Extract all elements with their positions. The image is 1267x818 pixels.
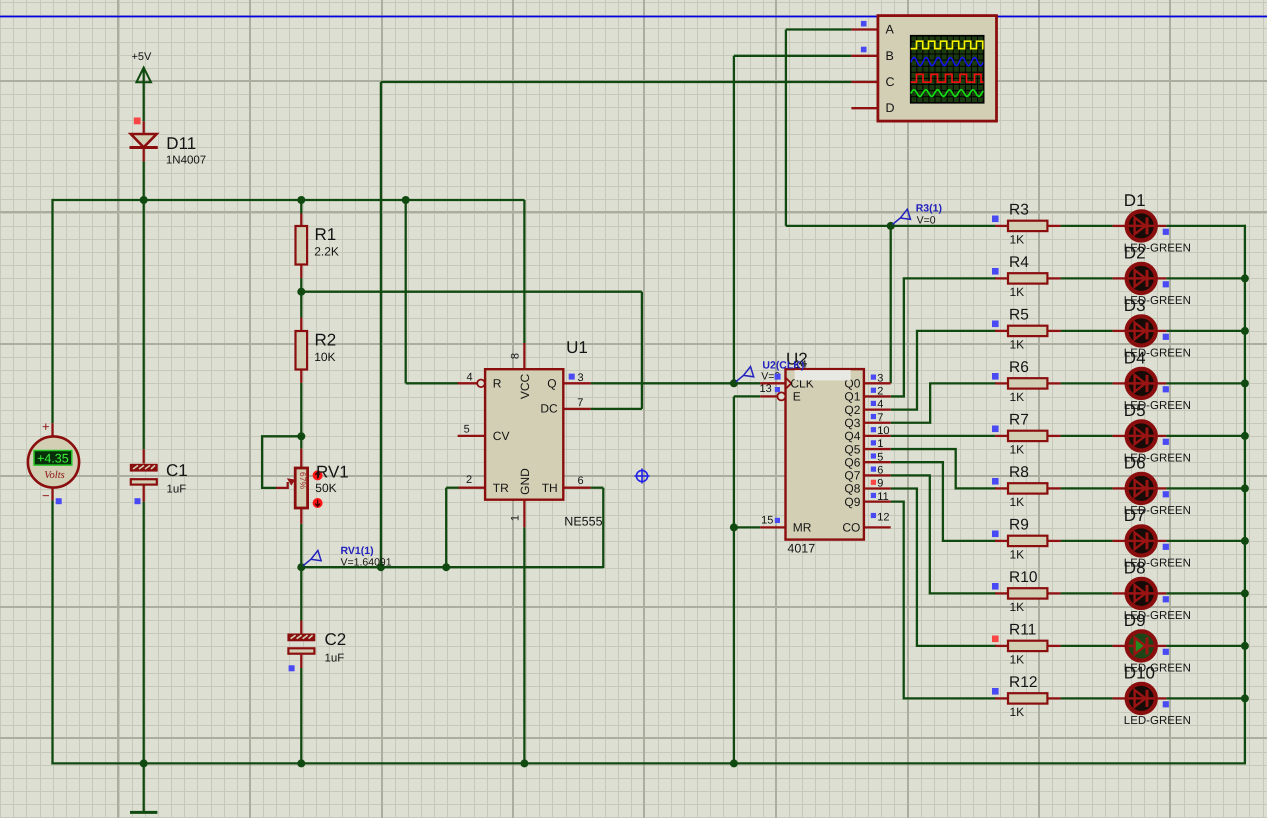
- svg-text:TR: TR: [493, 481, 509, 495]
- junction D9 on right bus: [1241, 642, 1249, 650]
- junction D11/C1 on VCC bus: [140, 196, 148, 204]
- svg-text:D8: D8: [1124, 558, 1146, 577]
- pin R11 left: [995, 645, 1008, 647]
- svg-text:10: 10: [877, 425, 889, 437]
- pin D10 cathode: [1157, 697, 1167, 699]
- junction RV1/C2 node: [297, 563, 305, 571]
- wire RV1 wiper loop: [262, 436, 301, 488]
- resistor R3: [1008, 221, 1047, 231]
- pin C1 top: [143, 449, 145, 463]
- LED D8: [1127, 579, 1156, 608]
- wire DC vertical: [641, 292, 643, 409]
- svg-text:GND: GND: [518, 468, 532, 495]
- wire R3 to D1: [1061, 225, 1113, 227]
- svg-text:1K: 1K: [1010, 547, 1025, 561]
- resistor R5: [1008, 326, 1047, 336]
- svg-text:11: 11: [877, 491, 888, 503]
- pin R9 right: [1047, 540, 1060, 542]
- resistor R2: [296, 331, 308, 370]
- pin U2 Q9: [864, 500, 891, 502]
- svg-text:TH: TH: [542, 481, 558, 495]
- pin U2 Q5: [864, 448, 891, 450]
- pin U2.13 E: [760, 395, 777, 397]
- svg-text:D10: D10: [1124, 663, 1155, 682]
- probe R3(1) arrow: [893, 218, 901, 224]
- pin R3 right: [1047, 225, 1060, 227]
- wire Q0 node to R3: [891, 225, 995, 227]
- origin marker: [636, 470, 647, 481]
- wire scope C vertical: [380, 82, 382, 567]
- svg-text:+: +: [42, 419, 50, 434]
- pin C2 bottom: [300, 655, 302, 668]
- svg-text:Q6: Q6: [844, 455, 860, 469]
- pin D2 cathode: [1157, 277, 1167, 279]
- counter U2 4017 body: [786, 369, 864, 539]
- pin R5 left: [995, 330, 1008, 332]
- svg-text:1K: 1K: [1010, 337, 1025, 351]
- svg-text:C: C: [886, 75, 895, 89]
- wire DC pin horizontal: [591, 408, 642, 410]
- svg-text:7: 7: [877, 412, 883, 424]
- pin D8 anode: [1113, 592, 1126, 594]
- junction D10 on right bus: [1241, 694, 1249, 702]
- svg-text:67%: 67%: [298, 472, 308, 489]
- svg-text:CV: CV: [493, 429, 510, 443]
- svg-text:Q9: Q9: [844, 495, 860, 509]
- wire VCC to U1 pin8: [523, 200, 525, 343]
- wire to R pin: [406, 382, 459, 384]
- sheet border line: [0, 16, 1267, 18]
- LED D4: [1127, 369, 1156, 398]
- pin U1.3 Q: [563, 382, 590, 384]
- op-amp U1 NE555 body: [485, 369, 563, 500]
- pin U1.7 DC: [563, 408, 590, 410]
- svg-text:Q7: Q7: [844, 469, 860, 483]
- pin RV1 wiper: [276, 482, 288, 488]
- resistor R1: [296, 226, 308, 265]
- wire D11 to bus: [143, 162, 145, 201]
- svg-text:1K: 1K: [1010, 232, 1025, 246]
- svg-text:R8: R8: [1009, 464, 1029, 481]
- wire C1 to ground bus: [143, 502, 145, 764]
- svg-text:1K: 1K: [1010, 705, 1025, 719]
- svg-text:7: 7: [577, 397, 583, 409]
- svg-text:1: 1: [510, 515, 522, 521]
- svg-text:Q: Q: [547, 377, 556, 391]
- junction scope C on TR net: [377, 563, 385, 571]
- svg-text:Q5: Q5: [844, 442, 860, 456]
- wire D2 to right bus: [1166, 277, 1246, 279]
- pin R2 bottom: [300, 370, 302, 383]
- wire voltmeter minus leg: [51, 500, 53, 764]
- LED D3: [1127, 316, 1156, 345]
- pin D6 cathode: [1157, 487, 1167, 489]
- wire R11 to D9: [1061, 645, 1113, 647]
- wire Q1 to R4: [891, 278, 997, 396]
- svg-text:Q8: Q8: [844, 482, 860, 496]
- scope trace D green: [911, 90, 984, 97]
- junction CLK node: [730, 379, 738, 387]
- svg-text:R: R: [493, 377, 502, 391]
- resistor R4: [1008, 273, 1047, 283]
- svg-text:D4: D4: [1124, 348, 1146, 367]
- junction D3 on right bus: [1241, 327, 1249, 335]
- pin U2 Q7: [864, 474, 891, 476]
- wire ground stem: [143, 763, 145, 812]
- pin D2 anode: [1113, 277, 1126, 279]
- svg-text:C2: C2: [325, 630, 347, 649]
- voltmeter: [28, 436, 79, 487]
- wire to MR pin: [734, 526, 760, 528]
- pin D7 cathode: [1157, 540, 1167, 542]
- svg-text:10K: 10K: [314, 350, 335, 364]
- svg-text:13: 13: [760, 383, 772, 395]
- resistor R8: [1008, 483, 1047, 493]
- svg-text:C1: C1: [166, 461, 188, 480]
- wire scope A horizontal: [786, 28, 852, 30]
- pin R1 bottom: [300, 265, 302, 279]
- wire voltmeter plus leg: [51, 199, 53, 423]
- svg-text:A: A: [886, 23, 895, 37]
- wire node to R2: [300, 292, 302, 318]
- pin U2 Q0: [864, 382, 891, 384]
- pin scope B: [851, 55, 878, 57]
- wire D6 to right bus: [1166, 487, 1246, 489]
- wire D5 to right bus: [1166, 435, 1246, 437]
- svg-text:2: 2: [466, 474, 472, 486]
- svg-text:−: −: [42, 488, 50, 503]
- junction C1 on ground bus: [140, 759, 148, 767]
- svg-text:4017: 4017: [787, 542, 815, 556]
- svg-text:1N4007: 1N4007: [166, 155, 206, 167]
- svg-text:+4.35: +4.35: [37, 452, 69, 466]
- U1 R pin bubble: [477, 380, 485, 388]
- wire LED anode right bus: [1244, 225, 1246, 764]
- junction U2 ground on bus: [730, 759, 738, 767]
- svg-text:R9: R9: [1009, 517, 1029, 534]
- wire Q8 to R11: [891, 489, 997, 646]
- svg-text:DC: DC: [540, 401, 558, 415]
- svg-text:4: 4: [877, 399, 883, 411]
- pin R6 right: [1047, 382, 1060, 384]
- svg-text:D11: D11: [166, 134, 196, 153]
- LED D9: [1127, 631, 1156, 660]
- svg-text:R7: R7: [1009, 412, 1029, 429]
- svg-text:V=1.64091: V=1.64091: [341, 557, 392, 569]
- pin R3 left: [995, 225, 1008, 227]
- pin voltmeter plus: [51, 423, 53, 437]
- wire node to RV1: [300, 436, 302, 448]
- wire RV1 to TR node: [300, 524, 302, 567]
- svg-text:15: 15: [761, 514, 773, 526]
- svg-text:D3: D3: [1124, 296, 1146, 315]
- svg-text:R3: R3: [1009, 202, 1029, 219]
- pin U2 Q1: [864, 395, 891, 397]
- wire R10 to D8: [1061, 592, 1113, 594]
- pin D5 cathode: [1157, 435, 1167, 437]
- capacitor C2: [287, 634, 315, 642]
- svg-text:1: 1: [877, 438, 883, 450]
- svg-text:Q2: Q2: [844, 403, 860, 417]
- pin U1.8 VCC: [523, 343, 525, 369]
- svg-text:RV1(1): RV1(1): [341, 545, 374, 557]
- wire R2 to RV1 node: [300, 383, 302, 436]
- resistor R6: [1008, 378, 1047, 388]
- wire ground bottom bus: [51, 762, 1246, 764]
- pin R10 left: [995, 592, 1008, 594]
- power +5V symbol: [136, 68, 151, 83]
- wire Q5 to R8: [891, 449, 997, 488]
- ground symbol: [130, 811, 157, 814]
- svg-text:3: 3: [578, 372, 584, 384]
- oscilloscope body: [878, 16, 997, 122]
- svg-text:1K: 1K: [1010, 600, 1025, 614]
- wire R5 to D3: [1061, 330, 1113, 332]
- svg-text:1K: 1K: [1010, 285, 1025, 299]
- svg-text:1K: 1K: [1010, 390, 1025, 404]
- wire reset vertical: [405, 199, 407, 383]
- svg-text:D1: D1: [1124, 191, 1146, 210]
- wire E/MR ground vertical: [733, 396, 735, 763]
- wire Q7 to R10: [891, 475, 997, 593]
- svg-text:9: 9: [877, 478, 883, 490]
- wire Q6 to R9: [891, 462, 997, 541]
- junction D4 on right bus: [1241, 379, 1249, 387]
- pin U2 Q3: [864, 422, 891, 424]
- svg-text:6: 6: [578, 475, 584, 487]
- scope trace B blue: [911, 58, 984, 66]
- wire Q3 to R6: [891, 383, 997, 422]
- scope trace C red: [911, 74, 984, 82]
- pin U2.15 MR: [760, 526, 785, 528]
- wire bus to C1: [143, 200, 145, 449]
- pin RV1 top: [300, 449, 302, 468]
- pin R1 top: [300, 214, 302, 227]
- pin R4 right: [1047, 277, 1060, 279]
- wire Q9 to R12: [891, 502, 997, 699]
- svg-text:8: 8: [510, 353, 522, 359]
- wire scope C horizontal: [381, 81, 852, 83]
- svg-text:4: 4: [466, 372, 472, 384]
- pin U2 Q2: [864, 408, 891, 410]
- svg-text:CO: CO: [842, 520, 860, 534]
- pin D4 cathode: [1157, 382, 1167, 384]
- pin U2 Q6: [864, 461, 891, 463]
- pin scope A: [851, 28, 878, 30]
- svg-text:V=0: V=0: [917, 215, 936, 227]
- svg-text:D9: D9: [1124, 611, 1146, 630]
- pin R9 left: [995, 540, 1008, 542]
- wire Q4 to R7: [891, 435, 995, 437]
- capacitor C1: [130, 464, 158, 472]
- svg-text:VCC: VCC: [518, 374, 532, 400]
- wire scope A vertical: [785, 30, 787, 226]
- pin D5 anode: [1113, 435, 1126, 437]
- junction Q0/scope A/R3: [887, 222, 895, 230]
- wire TR node to C2: [300, 567, 302, 620]
- junction D5 on right bus: [1241, 432, 1249, 440]
- pin D6 anode: [1113, 487, 1126, 489]
- U2 E pin bubble: [777, 392, 785, 400]
- svg-text:D7: D7: [1124, 506, 1146, 525]
- resistor R12: [1008, 693, 1047, 703]
- pin D9 cathode: [1157, 645, 1167, 647]
- svg-text:Q4: Q4: [844, 429, 860, 443]
- wire D10 to right bus: [1166, 697, 1246, 699]
- LED D6: [1127, 474, 1156, 503]
- svg-text:Q3: Q3: [844, 416, 860, 430]
- svg-text:6: 6: [877, 464, 883, 476]
- wire +5V to D11: [143, 70, 145, 122]
- pin D8 cathode: [1157, 592, 1167, 594]
- LED D10: [1127, 684, 1156, 713]
- svg-text:D5: D5: [1124, 401, 1146, 420]
- wire bus to R1: [300, 200, 302, 214]
- wire R7 to D5: [1061, 435, 1113, 437]
- junction TR on net: [442, 563, 450, 571]
- wire R6 to D4: [1061, 382, 1113, 384]
- junction reset on VCC bus: [402, 196, 410, 204]
- svg-text:1uF: 1uF: [167, 483, 187, 495]
- junction D2 on right bus: [1241, 274, 1249, 282]
- svg-text:3: 3: [877, 372, 883, 384]
- pin R10 right: [1047, 592, 1060, 594]
- svg-text:U1: U1: [566, 338, 588, 357]
- svg-text:Q1: Q1: [844, 390, 860, 404]
- pin U2 Q4: [864, 435, 891, 437]
- junction MR node: [730, 523, 738, 531]
- svg-text:2: 2: [877, 386, 883, 398]
- svg-text:2.2K: 2.2K: [314, 244, 339, 258]
- pin D11 anode: [143, 121, 145, 134]
- wire Q2 to R5: [891, 331, 997, 410]
- wire R1 to node: [300, 278, 302, 292]
- potentiometer RV1: [295, 468, 307, 508]
- svg-text:5: 5: [877, 451, 883, 463]
- pin R12 right: [1047, 697, 1060, 699]
- pin R7 left: [995, 435, 1008, 437]
- resistor R10: [1008, 588, 1047, 598]
- RV1 up button: [313, 470, 323, 480]
- svg-text:Volts: Volts: [44, 470, 64, 481]
- wire scope B vertical: [733, 56, 735, 384]
- pin R8 right: [1047, 487, 1060, 489]
- wire TH pin to corner: [591, 487, 604, 489]
- svg-text:50K: 50K: [315, 481, 336, 495]
- pin U1.2 TR: [459, 487, 485, 489]
- svg-text:LED-GREEN: LED-GREEN: [1124, 715, 1191, 727]
- pin D7 anode: [1113, 540, 1126, 542]
- wire TR/TH net horizontal: [301, 566, 603, 568]
- RV1 down button: [313, 498, 323, 508]
- svg-text:5: 5: [464, 424, 470, 436]
- resistor R11: [1008, 641, 1047, 651]
- pin D1 cathode: [1157, 225, 1167, 227]
- pin U2.12 CO: [864, 526, 891, 528]
- svg-text:1uF: 1uF: [325, 653, 345, 665]
- svg-text:MR: MR: [793, 520, 812, 534]
- svg-text:E: E: [793, 390, 801, 404]
- pin U1.5 CV: [458, 435, 486, 437]
- svg-text:R5: R5: [1009, 307, 1029, 324]
- wire D9 to right bus: [1166, 645, 1246, 647]
- junction C2 on ground bus: [297, 759, 305, 767]
- svg-text:1K: 1K: [1010, 495, 1025, 509]
- wire Q0 vertical: [890, 226, 892, 383]
- svg-text:R12: R12: [1009, 674, 1037, 691]
- wire to TR pin: [446, 487, 459, 489]
- svg-text:1K: 1K: [1010, 442, 1025, 456]
- pin scope D: [851, 107, 878, 109]
- pin R6 left: [995, 382, 1008, 384]
- scope trace A yellow: [911, 41, 984, 48]
- pin U1.6 TH: [563, 487, 590, 489]
- LED D7: [1127, 526, 1156, 555]
- resistor R7: [1008, 431, 1047, 441]
- U2 CLK chevron: [786, 378, 792, 389]
- pin D4 anode: [1113, 382, 1126, 384]
- pin C2 top: [300, 621, 302, 634]
- wire TR vertical: [445, 488, 447, 568]
- svg-text:R1: R1: [315, 225, 337, 244]
- wire D8 to right bus: [1166, 592, 1246, 594]
- probe RV1(1) arrow: [303, 559, 311, 565]
- svg-text:D2: D2: [1124, 243, 1146, 262]
- pin RV1 bottom: [300, 508, 302, 524]
- svg-text:R10: R10: [1009, 569, 1038, 586]
- svg-text:+5V: +5V: [132, 51, 153, 63]
- junction D7 on right bus: [1241, 537, 1249, 545]
- junction D6 on right bus: [1241, 484, 1249, 492]
- LED D1: [1127, 211, 1156, 240]
- pin U2 Q8: [864, 487, 891, 489]
- pin R7 right: [1047, 435, 1060, 437]
- svg-text:D: D: [886, 101, 895, 115]
- junction R1 on VCC bus: [297, 196, 305, 204]
- junction D8 on right bus: [1241, 589, 1249, 597]
- wire to E pin: [734, 395, 760, 397]
- pin R12 left: [995, 697, 1008, 699]
- junction U1 GND on ground bus: [520, 759, 528, 767]
- svg-text:1K: 1K: [1010, 652, 1025, 666]
- pin voltmeter minus: [51, 487, 53, 500]
- wire R9 to D7: [1061, 540, 1113, 542]
- pin R5 right: [1047, 330, 1060, 332]
- svg-text:D6: D6: [1124, 453, 1146, 472]
- wire C2 to ground bus: [300, 668, 302, 763]
- pin U1.1 GND: [523, 500, 525, 528]
- junction R1/R2/DC node: [297, 288, 305, 296]
- wire D7 to right bus: [1166, 540, 1246, 542]
- pin D11 cathode: [143, 148, 145, 162]
- wire scope B horizontal: [734, 55, 852, 57]
- pin D3 cathode: [1157, 330, 1167, 332]
- wire R8 to D6: [1061, 487, 1113, 489]
- pin D3 anode: [1113, 330, 1126, 332]
- pin D10 anode: [1113, 697, 1126, 699]
- pin D9 anode: [1113, 645, 1126, 647]
- wire VCC top bus: [53, 199, 525, 201]
- wire scope A to Q0 node: [786, 225, 891, 227]
- oscilloscope screen: [911, 36, 984, 103]
- svg-text:R6: R6: [1009, 359, 1029, 376]
- wire D4 to right bus: [1166, 382, 1246, 384]
- pin R8 left: [995, 487, 1008, 489]
- wire D1 to right bus: [1166, 225, 1246, 227]
- svg-text:R4: R4: [1009, 254, 1029, 271]
- junction R2/RV1 node: [297, 432, 305, 440]
- svg-text:12: 12: [877, 511, 889, 523]
